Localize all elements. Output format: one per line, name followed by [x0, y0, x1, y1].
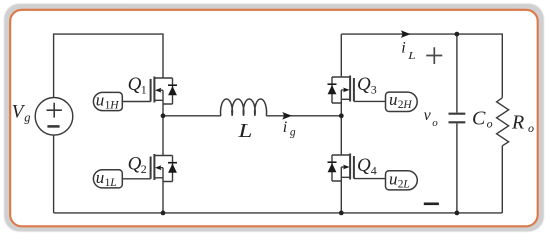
svg-text:H: H	[109, 99, 119, 111]
svg-text:g: g	[24, 110, 30, 124]
transistor Q2	[122, 154, 177, 182]
svg-text:u: u	[96, 168, 105, 187]
plus output	[426, 47, 442, 64]
svg-text:i: i	[401, 40, 405, 57]
node bottom left leg	[161, 211, 166, 216]
svg-text:C: C	[472, 107, 486, 129]
capacitor Co	[449, 114, 466, 123]
wire resistor branch lower	[501, 146, 503, 213]
node bottom right leg	[339, 211, 344, 216]
svg-text:Q: Q	[128, 153, 142, 174]
svg-text:o: o	[432, 117, 438, 129]
svg-text:L: L	[237, 120, 252, 142]
svg-text:L: L	[407, 50, 416, 62]
svg-text:H: H	[402, 99, 412, 111]
svg-text:2: 2	[141, 162, 147, 176]
svg-text:u: u	[96, 90, 105, 109]
wire top-left rail	[54, 34, 163, 98]
wire capacitor branch upper	[456, 34, 458, 113]
svg-text:i: i	[283, 119, 287, 136]
wire inductor to right leg	[266, 115, 341, 117]
wire left leg lower	[162, 168, 164, 213]
control box u1H	[93, 92, 122, 110]
node right leg mid	[339, 113, 344, 118]
svg-text:Q: Q	[357, 155, 371, 176]
svg-text:o: o	[487, 117, 493, 131]
svg-text:4: 4	[371, 164, 377, 178]
resistor Ro	[497, 98, 509, 146]
svg-text:1: 1	[141, 83, 147, 97]
inductor L	[221, 99, 267, 116]
svg-text:Q: Q	[357, 74, 371, 95]
wire right leg mid	[340, 90, 342, 155]
control box u1L	[93, 170, 122, 188]
control box u2H	[386, 92, 418, 111]
transistor Q1	[122, 77, 177, 105]
svg-text:u: u	[389, 170, 398, 189]
voltage source Vg	[35, 98, 73, 136]
svg-text:L: L	[109, 177, 116, 189]
svg-text:R: R	[511, 112, 524, 134]
wire mid to inductor	[163, 115, 221, 117]
transistor Q3	[328, 76, 386, 104]
minus output	[424, 203, 439, 206]
svg-text:Q: Q	[128, 74, 142, 95]
wire left leg mid	[162, 90, 164, 155]
svg-text:o: o	[528, 121, 534, 135]
svg-text:L: L	[402, 179, 409, 191]
node left leg mid	[161, 113, 166, 118]
node bottom capacitor	[455, 211, 460, 216]
control box u2L	[386, 171, 418, 190]
svg-text:3: 3	[371, 83, 377, 97]
svg-text:u: u	[389, 90, 398, 109]
wire capacitor branch lower	[456, 123, 458, 212]
wire top-right rail	[341, 34, 502, 98]
svg-text:g: g	[290, 127, 296, 139]
arrow ig	[282, 112, 292, 120]
wire right leg lower	[340, 167, 342, 213]
svg-text:v: v	[424, 107, 432, 124]
wire from source bottom	[53, 135, 55, 213]
arrow iL	[401, 30, 411, 38]
node top right	[455, 32, 460, 37]
transistor Q4	[328, 154, 386, 182]
wire bottom rail	[54, 212, 503, 214]
